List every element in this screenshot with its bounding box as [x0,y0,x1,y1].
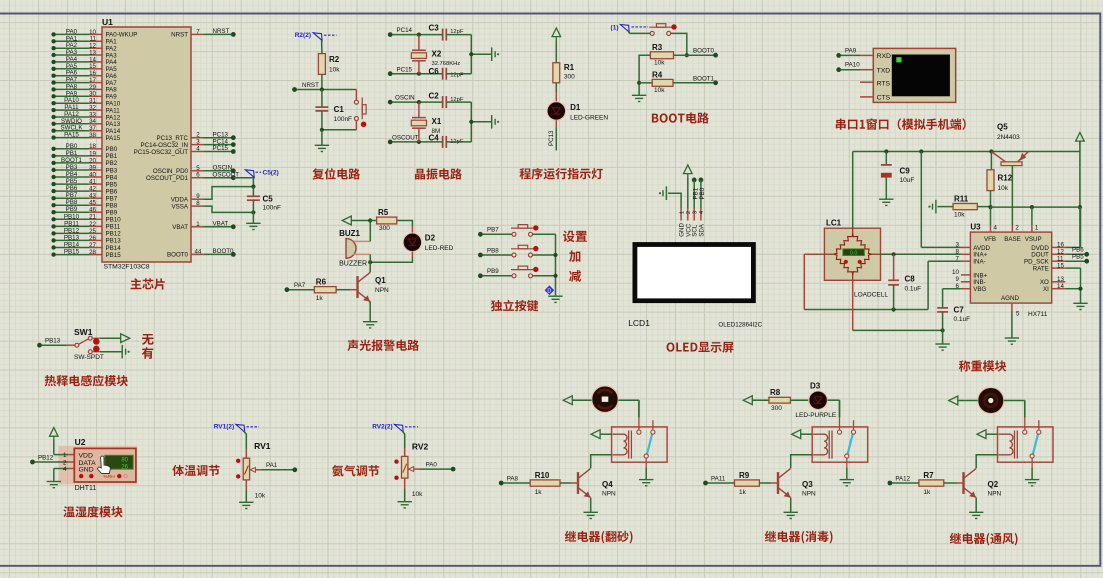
label body temp caption [172,465,219,476]
push button BOOT [649,24,677,36]
svg-text:0.1uF: 0.1uF [954,316,971,323]
resistor R2 [318,54,325,75]
svg-text:1k: 1k [923,489,931,496]
svg-text:C8: C8 [905,275,916,284]
wiper RV1 PA1 [250,467,255,472]
pin RTS stub [860,81,873,83]
power flag alarm [342,216,351,225]
wire PA8 to R10 [503,482,530,484]
wire coil to collector [976,455,997,468]
crystal X2 [417,33,421,37]
wire RV1 to ground [245,480,247,490]
svg-text:2: 2 [1015,224,1019,231]
wire PD_SCK PB5 [1065,260,1085,262]
svg-text:NPN: NPN [802,491,816,498]
relay RL2 box [998,417,1054,467]
svg-text:1: 1 [1035,224,1039,231]
svg-text:43: 43 [89,193,96,200]
switch SW1 SPDT [75,336,100,353]
label crystal caption [415,168,462,179]
svg-text:1k: 1k [739,489,747,496]
svg-text:C1: C1 [334,105,345,114]
svg-text:PB7: PB7 [106,196,118,203]
ground RV2 [398,502,412,508]
label weighing caption [959,360,1006,371]
crystal X1 [417,100,421,104]
wire AVDD riser [920,152,922,248]
svg-text:PC14: PC14 [397,27,413,34]
wire BOOT1 [673,82,714,84]
pin AGND stub [1011,303,1013,311]
wire buzzer pins [369,221,371,242]
wire D1 to PC13 [555,120,557,128]
wire D3 to relay [827,399,839,401]
wire top power rail [1079,141,1081,152]
wire button branch [322,129,357,131]
capacitor C7 [937,307,948,309]
svg-text:SDA: SDA [698,223,705,237]
svg-text:X2: X2 [432,50,442,59]
wire motor to relay [618,399,639,401]
svg-text:21: 21 [89,214,96,221]
capacitor C2 [442,96,444,108]
U3 top pin stubs [990,226,992,233]
svg-text:PA8: PA8 [507,475,519,482]
resistor R1 [553,63,560,83]
svg-text:(1): (1) [611,25,619,32]
svg-text:BOOT0: BOOT0 [693,48,715,55]
svg-text:PB3: PB3 [66,164,78,171]
svg-text:3: 3 [693,211,699,214]
svg-text:10k: 10k [954,212,965,219]
motor M3 [978,387,1004,413]
svg-text:%RH: %RH [104,474,116,480]
wire PB12 DATA [35,461,69,463]
svg-text:PA7: PA7 [294,282,306,289]
power arrow motor M1 [563,396,572,405]
svg-text:LC1: LC1 [826,219,842,228]
wire R4 left [639,82,652,84]
svg-text:300: 300 [564,74,575,81]
svg-text:OSCOUT: OSCOUT [392,135,419,142]
resistor R12 [990,152,992,170]
svg-text:VSSA: VSSA [171,203,188,210]
label ammonia caption [332,465,379,476]
svg-text:PA10: PA10 [845,62,860,69]
node NRST [292,87,297,92]
wire flag to RV1 [244,431,247,449]
svg-text:PB5: PB5 [66,178,78,185]
potentiometer RV1 [243,458,249,480]
svg-text:VBAT: VBAT [213,221,229,228]
svg-text:27: 27 [89,242,96,249]
svg-text:PA1: PA1 [266,462,278,469]
svg-text:32.768KHz: 32.768KHz [432,61,461,67]
svg-text:C7: C7 [954,306,965,315]
svg-text:VBAT: VBAT [172,224,188,231]
capacitor C9 electrolytic [885,152,887,165]
svg-text:6: 6 [196,172,200,179]
svg-text:1k: 1k [316,295,324,302]
svg-text:4: 4 [699,211,705,214]
label BOOT caption [652,112,709,123]
svg-text:PB7: PB7 [487,227,499,234]
svg-text:1k: 1k [535,489,543,496]
wire LC1 left to INA- net [804,253,824,255]
svg-text:BOOT0: BOOT0 [167,252,189,259]
ground relay switch [1025,480,1039,486]
wire R2 to NRST rail [321,74,323,89]
svg-text:10k: 10k [998,185,1009,192]
svg-text:VSUP: VSUP [1025,236,1042,243]
wire PA9 to terminal [836,53,841,58]
svg-text:LED-RED: LED-RED [425,245,454,252]
svg-text:BOOT1: BOOT1 [693,75,715,82]
svg-text:10k: 10k [255,493,266,500]
ground C9 [879,199,893,205]
wire R3 left rail [639,55,650,95]
label have caption [142,347,154,359]
resistor R10 [530,480,560,486]
push button PB7 [511,225,539,237]
svg-text:38: 38 [89,132,96,139]
svg-text:NPN: NPN [375,287,389,294]
svg-text:PA11: PA11 [711,475,726,482]
svg-text:80: 80 [121,458,128,464]
svg-text:PB1: PB1 [106,153,118,160]
wire PA11 to R9 [708,482,735,484]
svg-text:R2: R2 [329,55,340,64]
svg-text:PA15: PA15 [64,132,79,139]
svg-text:42: 42 [89,186,96,193]
svg-text:X1: X1 [432,117,442,126]
svg-text:U2: U2 [75,437,86,447]
ground flag R11 [928,200,936,214]
wire crystal right rail upper [470,35,472,74]
svg-text:2: 2 [686,211,692,214]
power flag D1 [552,28,561,41]
wire emitter ground [975,498,977,513]
svg-text:40: 40 [89,171,96,178]
transistor Q2 [964,468,977,497]
capacitor C4 [442,136,444,148]
svg-text:PB9: PB9 [106,210,118,217]
svg-text:10k: 10k [654,87,665,94]
wire R7 to base [944,482,957,484]
capacitor C1 [321,90,323,108]
blue flag RV1(2) [236,424,245,432]
svg-text:LOADCELL: LOADCELL [854,292,888,299]
svg-text:SW-SPDT: SW-SPDT [74,354,104,361]
svg-text:26: 26 [121,464,128,470]
blue flag RV2(2) [394,424,403,432]
svg-text:PB11: PB11 [106,224,121,231]
svg-text:0.1uF: 0.1uF [905,286,922,293]
svg-text:PA9: PA9 [845,47,857,54]
wire relay feed [1024,400,1026,417]
label main chip caption [131,278,165,289]
node OSCIN [388,100,393,105]
svg-text:18: 18 [89,143,96,150]
ground C7 [942,330,944,344]
svg-text:PB4: PB4 [66,171,78,178]
blue flag (1) [620,25,629,33]
resistor R3 [650,52,673,59]
node PA7 [285,287,290,292]
svg-text:R5: R5 [378,208,389,217]
node PB13 [37,343,42,348]
wire PB13 to switch [42,344,67,346]
svg-text:C3: C3 [429,24,440,33]
svg-text:1: 1 [63,452,67,459]
wire PA10 to terminal [836,67,841,72]
relay RL3 box [812,417,868,467]
label DHT caption [63,506,122,517]
svg-text:PB0: PB0 [699,187,706,199]
svg-text:PB6: PB6 [66,185,78,192]
ground XI [1073,303,1087,309]
resistor R4 [652,79,673,86]
svg-text:Q3: Q3 [802,480,813,489]
svg-text:R1: R1 [564,63,575,72]
label PIR caption [45,375,128,387]
svg-text:BOOT0: BOOT0 [213,248,235,255]
ground relay switch [840,480,854,486]
svg-text:BUZZER: BUZZER [339,260,367,267]
wire XI [1065,288,1080,290]
svg-text:PB11: PB11 [64,220,79,227]
wiper RV2 PA0 [409,467,414,472]
svg-text:26: 26 [89,235,96,242]
selection highlight U2 [58,446,137,484]
wire C3 right [446,34,471,36]
wire relay common ground [645,467,647,479]
LED D3 [809,391,828,410]
svg-text:PB13: PB13 [45,338,61,345]
origin marker [545,285,555,295]
svg-text:28: 28 [89,249,96,256]
wire motor to relay 3 [1004,400,1025,402]
svg-text:C2: C2 [429,91,440,100]
wire button rail [555,234,557,296]
svg-text:RV2: RV2 [412,442,429,452]
svg-text:INA-: INA- [973,259,985,266]
label plus caption [569,250,580,262]
resistor R8 [769,397,791,403]
wire LC1 bottom net [852,280,854,330]
label relay1 caption [565,531,633,544]
svg-text:D2: D2 [425,234,436,243]
wire DVDD riser [1065,246,1080,248]
power arrow motor M3 [949,396,958,405]
svg-text:D3: D3 [810,382,821,391]
svg-text:AGND: AGND [1001,295,1019,302]
wire coil to collector [591,455,612,468]
svg-text:41: 41 [89,179,96,186]
wire OSCOUT to C4 [392,141,443,143]
ground Q1 [363,322,377,328]
wire OSCIN to C2 [392,101,443,103]
svg-text:PB7: PB7 [66,192,78,199]
svg-text:PB13: PB13 [106,238,122,245]
wire emitter ground [790,498,792,513]
wire C6 right [446,73,471,75]
wire R10 to base [560,482,571,484]
svg-text:39: 39 [89,164,96,171]
svg-text:8M: 8M [432,128,441,135]
svg-text:19: 19 [89,150,96,157]
svg-text:PC15-OSC32_OUT: PC15-OSC32_OUT [134,149,189,156]
svg-text:PB15: PB15 [106,252,122,259]
LCD1 display [633,242,756,303]
svg-text:PB0: PB0 [66,143,78,150]
wire relay common ground [846,467,848,479]
svg-text:NRST: NRST [213,28,230,35]
svg-text:2N4403: 2N4403 [997,134,1020,141]
svg-text:22: 22 [89,221,96,228]
wire emitter ground [590,498,592,513]
svg-text:TXD: TXD [877,68,891,75]
wire RV2 to ground [404,478,406,489]
wire flag to RV2 [402,431,405,448]
wire VSSA net [204,206,253,212]
ground DHT11 [47,482,61,488]
svg-text:45: 45 [89,200,96,207]
wire R5 to D2 [397,221,413,227]
svg-text:PB8: PB8 [487,247,499,254]
svg-text:7: 7 [196,28,200,35]
svg-text:100nF: 100nF [263,205,281,212]
svg-text:R4: R4 [652,71,663,80]
wire VDDA net [204,187,253,200]
svg-text:R9: R9 [739,471,750,480]
label program LED caption [519,168,602,180]
push button reset [354,98,366,128]
wire flag to button [629,32,630,34]
svg-text:R2(2): R2(2) [295,32,311,39]
wire C4 right [446,141,471,143]
bridge resistors LC1 [853,234,872,255]
node PC14 [388,32,393,37]
svg-text:NPN: NPN [988,491,1002,498]
svg-text:NPN: NPN [602,491,616,498]
wire C2 right [446,101,471,103]
svg-text:10k: 10k [654,60,665,67]
label none caption [142,334,154,345]
svg-text:PB8: PB8 [66,199,78,206]
svg-text:PB2: PB2 [106,160,118,167]
wire throw1 to arrow [100,337,121,339]
svg-text:RATE: RATE [1033,266,1049,273]
ground AGND [1005,338,1019,344]
ground flag OLED [659,186,667,200]
wire PA12 to R7 [892,482,919,484]
LED D1 [547,102,566,121]
resistor R5 [377,217,397,224]
wire R6 to base [336,289,350,291]
svg-text:HX711: HX711 [1028,311,1048,318]
svg-text:PB1: PB1 [66,150,78,157]
svg-text:PA0: PA0 [426,462,438,469]
svg-text:PB12: PB12 [64,227,80,234]
svg-text:RV1(2): RV1(2) [214,424,234,431]
ground reset [321,130,323,146]
label set caption [563,231,587,243]
wire PC15 to C6 [392,73,443,75]
wire OSCOUT to C5 [204,177,231,179]
U3 left pins [961,246,971,248]
wire button PB8 [478,253,483,258]
svg-text:LCD1: LCD1 [628,318,650,328]
svg-text:PB12: PB12 [38,454,54,461]
svg-text:C6: C6 [429,67,440,76]
wire flag to R2 [321,40,323,54]
ground crystal lower [492,115,500,129]
svg-text:R8: R8 [770,388,781,397]
svg-text:RV1: RV1 [254,441,271,451]
label alarm caption [347,340,419,351]
svg-text:PB10: PB10 [64,213,80,220]
node PC15 [388,71,393,76]
resistor R11 [953,204,977,210]
svg-text:SW1: SW1 [74,327,93,337]
transistor Q5 PNP [991,152,1028,166]
svg-text:PB14: PB14 [106,245,122,252]
svg-text:4: 4 [994,224,998,231]
svg-text:RXD: RXD [877,53,891,60]
svg-text:PB8: PB8 [106,203,118,210]
svg-text:NRST: NRST [171,32,188,39]
node PB12 [30,460,35,465]
wire relay common ground [1031,467,1033,479]
wire R11 to junction [977,206,990,208]
power flag weighing rail [1076,133,1085,146]
load cell LC1 body [824,228,880,280]
svg-text:STM32F103C8: STM32F103C8 [104,263,150,270]
svg-text:R6: R6 [316,277,327,286]
svg-text:25: 25 [89,228,96,235]
wire button PB7 [478,232,483,237]
svg-text:1: 1 [196,221,200,228]
svg-text:0.0: 0.0 [850,250,858,256]
IC U3 HX711 body [970,232,1051,303]
push button PB8 [511,245,539,257]
svg-text:OSCOUT_PD1: OSCOUT_PD1 [146,175,189,182]
svg-text:U3: U3 [970,223,981,232]
svg-text:PB5: PB5 [106,181,118,188]
svg-text:10k: 10k [412,491,423,498]
svg-text:10uF: 10uF [900,177,915,184]
svg-text:R12: R12 [998,174,1013,183]
svg-text:8: 8 [196,200,200,207]
wire crystal right rail lower [470,102,472,142]
svg-text:CTS: CTS [877,95,891,102]
wire button PB9 [478,273,483,278]
resistor R9 [735,480,760,486]
svg-text:DHT11: DHT11 [75,485,97,492]
svg-text:1: 1 [679,211,685,214]
wire R9 to base [759,482,771,484]
wire U1 left pin nets PA0-PA15 [56,33,90,35]
svg-text:Q2: Q2 [988,480,999,489]
wire LC1 top to rail [852,152,854,229]
LED D2 [403,233,422,252]
wire OLED GND [668,193,681,208]
wire R1 to D1 [555,83,557,92]
svg-text:5: 5 [1016,311,1020,318]
resistor R6 [314,287,336,293]
svg-text:RV2(2): RV2(2) [372,424,392,431]
